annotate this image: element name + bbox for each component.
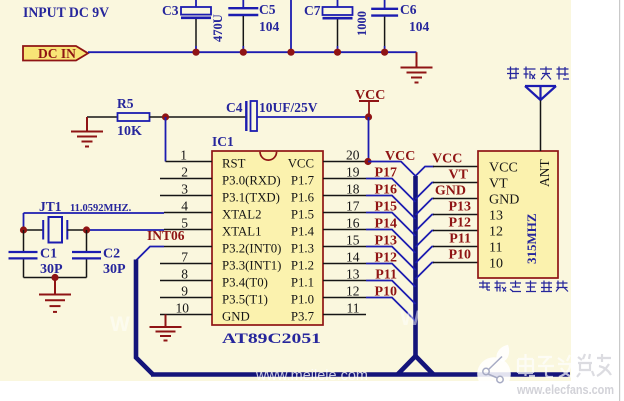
junction pin20/VCC [364, 158, 371, 165]
svg-text:P11: P11 [375, 268, 397, 283]
IC1 left pin numbers [176, 148, 190, 316]
svg-text:P12: P12 [374, 251, 397, 266]
svg-text:RST: RST [222, 157, 246, 171]
IC1 right pin names [288, 157, 315, 324]
svg-text:P1.6: P1.6 [291, 191, 315, 205]
wire P16 to bus [366, 196, 416, 220]
bus Y left leg [398, 356, 416, 375]
svg-text:www.elecfans.com: www.elecfans.com [516, 383, 614, 397]
svg-text:IC1: IC1 [212, 134, 234, 149]
svg-text:www.meilele.com: www.meilele.com [255, 368, 368, 384]
junction at C6 [381, 49, 388, 56]
svg-text:C3: C3 [162, 3, 179, 18]
svg-text:1: 1 [180, 148, 187, 163]
capacitor C4 10UF/25V [166, 100, 369, 131]
svg-text:P1.5: P1.5 [291, 208, 314, 222]
svg-text:15: 15 [346, 233, 360, 248]
resistor R5 10K [87, 96, 166, 139]
svg-text:11.0592MHZ.: 11.0592MHZ. [70, 203, 132, 214]
svg-text:XTAL2: XTAL2 [222, 208, 262, 222]
svg-text:1000: 1000 [355, 11, 369, 36]
svg-text:4: 4 [181, 199, 188, 214]
svg-text:104: 104 [409, 19, 430, 34]
svg-text:C4: C4 [226, 100, 243, 115]
thick bottom bus [151, 372, 570, 377]
svg-text:ANT: ANT [537, 159, 552, 187]
svg-text:2: 2 [181, 165, 188, 180]
capacitor C3 (electrolytic 470U) [162, 0, 225, 52]
wire P17 to bus [366, 179, 416, 203]
junction mid [287, 49, 294, 56]
svg-text:12: 12 [489, 225, 503, 240]
wire bus to module GND [416, 199, 435, 216]
crystal JT1 [24, 199, 165, 243]
svg-text:VCC: VCC [385, 149, 415, 164]
power port VCC (top) [355, 88, 385, 114]
wire P15 to bus [366, 213, 416, 237]
svg-text:P13: P13 [448, 200, 471, 215]
svg-text:W: W [400, 307, 420, 330]
wire C1/C2 ground rail [24, 277, 87, 279]
ground pin10 [150, 315, 182, 341]
svg-text:P3.7: P3.7 [291, 310, 315, 324]
svg-text:10UF/25V: 10UF/25V [259, 100, 318, 115]
svg-text:14: 14 [346, 250, 360, 265]
svg-text:P3.2(INT0): P3.2(INT0) [222, 242, 281, 256]
IC1 right pin numbers [346, 148, 360, 316]
svg-text:C6: C6 [400, 2, 417, 17]
svg-text:P1.4: P1.4 [291, 225, 315, 239]
wire DC IN to ground rail (top bus) [88, 51, 417, 53]
svg-text:P17: P17 [374, 166, 397, 181]
svg-text:VT: VT [449, 168, 469, 183]
svg-text:9: 9 [181, 284, 188, 299]
capacitor C2 30P [72, 230, 126, 278]
svg-text:INPUT DC 9V: INPUT DC 9V [23, 5, 109, 21]
RF module 无线遥控模块 [478, 151, 558, 278]
svg-text:P3.3(INT1): P3.3(INT1) [222, 259, 281, 273]
junction R5/C4/RST [162, 113, 169, 120]
svg-text:13: 13 [489, 209, 503, 224]
wire VCC pin20 to bus [368, 162, 416, 177]
svg-text:P16: P16 [374, 183, 397, 198]
svg-text:30P: 30P [40, 262, 63, 277]
thick left bus [136, 260, 153, 375]
svg-text:7: 7 [181, 250, 188, 265]
junction crystal ground [51, 274, 58, 281]
wire P14 to bus [366, 230, 416, 254]
svg-text:P12: P12 [448, 216, 471, 231]
svg-text:19: 19 [346, 165, 360, 180]
svg-text:XTAL1: XTAL1 [222, 225, 262, 239]
svg-text:C2: C2 [103, 247, 120, 262]
page right border line [619, 0, 620, 401]
wire P13 to bus [366, 247, 416, 271]
svg-text:P14: P14 [374, 217, 397, 232]
IC1 left pin stubs [160, 162, 212, 315]
svg-text:P15: P15 [374, 200, 397, 215]
ground crystal [39, 278, 71, 312]
label 无线遥控模块 (wireless remote control module) [479, 281, 568, 292]
svg-text:R5: R5 [117, 96, 134, 111]
svg-text:30P: 30P [103, 262, 126, 277]
svg-text:P11: P11 [449, 232, 471, 247]
svg-text:VCC: VCC [432, 152, 462, 167]
svg-text:P1.2: P1.2 [291, 259, 314, 273]
wire from top (cropped) to rail [290, 0, 292, 52]
junction at C7 [334, 49, 341, 56]
wire bus to module 13 [416, 215, 435, 232]
wire bus to module VT [416, 183, 435, 200]
wire P11 to bus [366, 281, 416, 305]
svg-text:315MHZ: 315MHZ [524, 213, 539, 264]
IC1 left pin names [222, 157, 281, 324]
svg-text:12: 12 [346, 284, 360, 299]
wire bus to module 10 [416, 263, 435, 280]
svg-text:VT: VT [489, 177, 508, 192]
wire P12 to bus [366, 264, 416, 288]
svg-text:470U: 470U [211, 14, 225, 42]
junction crystal left [20, 226, 27, 233]
antenna wire [540, 99, 542, 151]
svg-text:INT06: INT06 [147, 228, 185, 243]
junction C4/VCC [365, 113, 372, 120]
wire bus to module VCC [416, 167, 435, 177]
svg-text:16: 16 [346, 216, 360, 231]
svg-text:17: 17 [346, 199, 360, 214]
svg-text:C5: C5 [259, 2, 276, 17]
bus Y right leg [416, 356, 434, 375]
watermark logo circle [477, 345, 511, 391]
ground top right [401, 52, 433, 82]
svg-text:AT89C2051: AT89C2051 [222, 331, 321, 347]
svg-text:P1.0: P1.0 [291, 293, 314, 307]
svg-text:C1: C1 [40, 247, 57, 262]
wire INT06 to left bus [136, 247, 164, 261]
IC1 AT89C2051 [212, 134, 323, 347]
capacitor C1 30P [9, 230, 64, 278]
junction at C5 [240, 49, 247, 56]
svg-text:3: 3 [181, 182, 188, 197]
svg-text:8: 8 [181, 267, 188, 282]
svg-text:GND: GND [222, 310, 250, 324]
label 接收天线 (receiving antenna) [507, 67, 569, 80]
svg-text:W: W [110, 313, 130, 336]
wire junction to pin1 [165, 117, 167, 162]
svg-text:JT1: JT1 [39, 199, 62, 214]
svg-text:13: 13 [346, 267, 360, 282]
capacitor C7 (electrolytic 1000) [304, 0, 369, 52]
svg-text:10K: 10K [117, 124, 142, 139]
svg-text:P3.0(RXD): P3.0(RXD) [222, 174, 281, 188]
IC1 right pin stubs [323, 162, 368, 315]
wire bus to module 12 [416, 231, 435, 248]
capacitor C6 (104) [371, 0, 429, 52]
svg-text:104: 104 [259, 19, 280, 34]
svg-text:P10: P10 [374, 285, 397, 300]
svg-text:GND: GND [489, 193, 519, 208]
svg-text:18: 18 [346, 182, 360, 197]
svg-text:VCC: VCC [489, 161, 518, 176]
svg-text:VCC: VCC [288, 157, 314, 171]
capacitor C5 (104) [228, 0, 279, 52]
connector DC IN [23, 46, 88, 61]
svg-text:P1.1: P1.1 [291, 276, 314, 290]
svg-text:11: 11 [489, 241, 502, 256]
svg-text:P13: P13 [374, 234, 397, 249]
svg-text:P1.7: P1.7 [291, 174, 315, 188]
svg-text:DC IN: DC IN [38, 46, 76, 61]
wire VCC down to pin20 [368, 117, 370, 162]
svg-text:P1.3: P1.3 [291, 242, 314, 256]
svg-text:11: 11 [347, 301, 360, 316]
svg-text:P3.5(T1): P3.5(T1) [222, 293, 268, 307]
antenna symbol [525, 86, 556, 100]
svg-text:P3.1(TXD): P3.1(TXD) [222, 191, 280, 205]
svg-text:20: 20 [346, 148, 360, 163]
junction crystal right [83, 226, 90, 233]
svg-text:GND: GND [435, 184, 466, 199]
svg-text:10: 10 [489, 257, 503, 272]
wire bus to module 11 [416, 247, 435, 264]
thick right bus [413, 176, 418, 358]
ground at R5 [71, 117, 103, 147]
wire P10 to bus [366, 298, 416, 322]
junction at C3 [192, 49, 199, 56]
watermark 电子发烧友 [518, 354, 573, 377]
svg-text:C7: C7 [304, 3, 321, 18]
svg-text:10: 10 [176, 301, 190, 316]
svg-text:P3.4(T0): P3.4(T0) [222, 276, 268, 290]
svg-text:P10: P10 [448, 248, 471, 263]
